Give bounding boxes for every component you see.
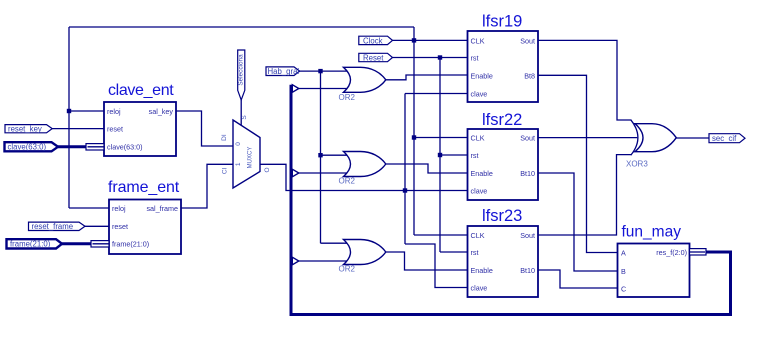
wire OR2 gate input a	[321, 154, 348, 156]
svg-text:CI: CI	[221, 167, 228, 174]
gate XOR3	[626, 120, 676, 169]
wire Clock flag to CLK lfsr19	[393, 39, 468, 41]
svg-text:Sout: Sout	[520, 231, 535, 240]
svg-text:res_f(2:0): res_f(2:0)	[656, 248, 687, 257]
svg-text:rst: rst	[471, 151, 479, 160]
svg-text:rst: rst	[471, 248, 479, 257]
wire reloj clave_ent	[69, 110, 104, 112]
wire CLK lfsr23	[414, 234, 468, 236]
svg-text:Bt10: Bt10	[520, 266, 535, 275]
svg-text:MUXCY: MUXCY	[248, 147, 254, 169]
block clave_ent	[104, 82, 176, 156]
svg-text:lfsr23: lfsr23	[482, 207, 522, 225]
wire sal_frame to MUXCY CI	[181, 164, 233, 208]
wire reset_key to reset clave_ent	[52, 128, 104, 130]
wire bus tap3 to OR3 input b	[299, 260, 347, 262]
port flag Hab_gral	[266, 67, 300, 76]
svg-text:B: B	[621, 267, 626, 276]
wire clock left vertical	[68, 27, 70, 208]
wire OR1 output to Enable lfsr19	[386, 75, 468, 80]
bus frame(21:0)	[62, 242, 93, 245]
block frame_ent	[108, 179, 181, 254]
bus res_f feedback loop	[291, 85, 731, 315]
svg-text:lfsr22: lfsr22	[482, 111, 522, 129]
wire OR2 output to Enable lfsr22	[386, 164, 468, 173]
svg-text:OR2: OR2	[339, 265, 356, 274]
wire bus tap2 to OR2 input b	[299, 172, 347, 174]
wire reset vertical	[439, 58, 441, 253]
svg-text:Bt8: Bt8	[524, 71, 535, 80]
gate OR2 middle	[339, 152, 386, 186]
wire Hab_gral to OR1 input a	[300, 70, 347, 72]
port flag frame(21:0)	[7, 239, 63, 248]
node Clock junction 1	[412, 38, 416, 42]
wire Bt8 to fun_may A	[538, 75, 618, 252]
wire Sout lfsr22 to XOR3 input b	[538, 137, 637, 139]
wire XOR3 output to sec_cif	[676, 137, 709, 139]
block lfsr22	[468, 111, 539, 200]
bus tap 2	[292, 169, 299, 177]
wire clave vertical	[404, 94, 406, 245]
svg-text:frame(21:0): frame(21:0)	[10, 240, 51, 249]
node Reset junction 1	[438, 55, 442, 59]
wire Hab_gral vertical	[320, 71, 322, 243]
port flag Reset	[359, 53, 393, 62]
svg-text:OR2: OR2	[339, 177, 356, 186]
wire Bt10 lfsr23 to fun_may C	[538, 270, 618, 288]
wire Sout lfsr19 to XOR3 input a	[538, 40, 632, 120]
svg-text:Bt10: Bt10	[520, 169, 535, 178]
svg-text:clave: clave	[471, 283, 488, 292]
wire reloj frame_ent	[69, 207, 109, 209]
port flag sec_cif	[709, 134, 745, 143]
wire clock right vertical	[413, 27, 415, 235]
svg-text:frame(21:0): frame(21:0)	[112, 240, 149, 249]
port flag Selecciona	[238, 50, 245, 100]
svg-text:clave_ent: clave_ent	[108, 82, 174, 99]
svg-text:clave(63:0): clave(63:0)	[8, 143, 47, 152]
svg-text:sal_key: sal_key	[149, 107, 174, 116]
svg-text:reset_frame: reset_frame	[32, 222, 74, 231]
svg-text:0: 0	[235, 142, 242, 146]
node Clock junction 2	[412, 135, 416, 139]
block lfsr19	[468, 13, 539, 103]
svg-text:Enable: Enable	[471, 71, 493, 80]
node reloj junction	[67, 109, 71, 113]
svg-text:Sout: Sout	[520, 36, 535, 45]
wire Reset flag to rst lfsr19	[393, 57, 468, 59]
svg-text:reset: reset	[107, 124, 123, 133]
wire MUXCY O to clave junction	[260, 164, 405, 190]
pin connector res_f(2:0)	[690, 249, 707, 255]
svg-text:Sout: Sout	[520, 133, 535, 142]
port flag Clock	[359, 36, 393, 45]
wire clave lfsr23	[405, 244, 468, 288]
svg-text:XOR3: XOR3	[626, 160, 648, 169]
port flag reset_frame	[29, 222, 86, 231]
block fun_may	[618, 224, 690, 298]
svg-text:CLK: CLK	[471, 133, 485, 142]
node clave junction	[403, 188, 407, 192]
svg-text:reloj: reloj	[112, 204, 126, 213]
wire reset_frame to reset frame_ent	[85, 225, 109, 227]
svg-text:C: C	[621, 284, 626, 293]
wire Sout lfsr23 to XOR3 input c	[538, 155, 632, 235]
svg-text:CLK: CLK	[471, 231, 485, 240]
svg-text:CLK: CLK	[471, 36, 485, 45]
node Reset junction 2	[438, 153, 442, 157]
svg-text:1: 1	[235, 162, 242, 166]
wire rst lfsr23	[440, 251, 468, 253]
wire rst lfsr22	[440, 154, 468, 156]
node Hab_gral junction 1	[318, 69, 322, 73]
svg-text:OR2: OR2	[339, 93, 356, 102]
wire Selecciona to MUXCY S	[240, 100, 242, 126]
svg-text:O: O	[264, 167, 271, 172]
mux MUXCY	[221, 115, 271, 188]
bus tap 3	[292, 257, 299, 265]
svg-text:Enable: Enable	[471, 169, 493, 178]
svg-text:lfsr19: lfsr19	[482, 13, 522, 31]
bus tap 1	[292, 85, 299, 93]
svg-text:clave: clave	[471, 89, 488, 98]
svg-text:reset_key: reset_key	[8, 124, 42, 133]
svg-text:S: S	[241, 115, 248, 120]
pin connector frame(21:0)	[91, 241, 109, 247]
port flag reset_key	[5, 124, 52, 133]
svg-text:DI: DI	[221, 134, 228, 141]
wire CLK lfsr22	[414, 137, 468, 139]
wire clave lfsr22	[405, 190, 468, 192]
svg-text:reset: reset	[112, 222, 128, 231]
svg-text:frame_ent: frame_ent	[108, 179, 180, 196]
svg-text:Hab_gral: Hab_gral	[268, 67, 300, 76]
port flag clave(63:0)	[5, 142, 59, 151]
svg-text:reloj: reloj	[107, 107, 121, 116]
gate OR2 top	[339, 67, 386, 102]
wire clave lfsr19	[405, 93, 468, 95]
wire OR3 gate input a	[321, 242, 348, 244]
svg-text:sec_cif: sec_cif	[712, 134, 737, 143]
pin connector clave(63:0)	[86, 144, 104, 150]
block lfsr23	[468, 207, 539, 297]
svg-text:clave(63:0): clave(63:0)	[107, 143, 143, 152]
svg-text:Selecciona: Selecciona	[238, 54, 245, 86]
svg-text:Clock: Clock	[363, 36, 383, 45]
svg-text:A: A	[621, 248, 626, 257]
wire clock top loop horizontal	[69, 26, 414, 28]
svg-text:Enable: Enable	[471, 266, 493, 275]
svg-text:sal_frame: sal_frame	[146, 204, 178, 213]
bus clave(63:0)	[58, 145, 88, 148]
svg-text:rst: rst	[471, 53, 479, 62]
wire Bt10 lfsr22 to fun_may B	[538, 173, 618, 271]
wire OR3 output to Enable lfsr23	[386, 252, 468, 270]
svg-text:Reset: Reset	[363, 53, 384, 62]
wire bus tap1 to OR1 input b	[299, 88, 347, 90]
wire sal_key to MUXCY DI	[176, 111, 233, 146]
node Hab_gral junction 2	[318, 153, 322, 157]
svg-text:clave: clave	[471, 186, 488, 195]
svg-text:fun_may: fun_may	[622, 224, 682, 241]
gate OR2 bottom	[339, 240, 386, 274]
